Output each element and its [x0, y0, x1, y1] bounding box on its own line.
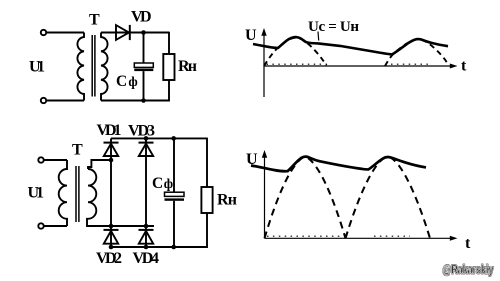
diode VD2: [104, 230, 119, 244]
node junction dot VD2 bottom rail: [109, 245, 114, 250]
X axis 1: [264, 64, 458, 69]
node junction dot VD4 bottom rail: [144, 245, 149, 250]
transformer T1 core: [92, 35, 95, 97]
node junction dot VD3 top rail: [144, 136, 149, 141]
wire capacitor upper lead: [143, 33, 145, 64]
wire resistor lower lead 2: [206, 213, 208, 248]
node junction dot secondary top to left column: [109, 158, 114, 163]
label U axis 1: [245, 27, 257, 44]
terminal bottom-left input: [41, 98, 46, 103]
svg-text:T: T: [89, 12, 100, 29]
dotted zero line under hump 2: [391, 63, 431, 65]
capacitor C-filter 2 bottom plate: [165, 198, 185, 200]
wire primary bottom lead 2: [44, 225, 67, 227]
diode VD4: [139, 230, 154, 244]
wire primary top lead: [46, 32, 84, 34]
wire secondary top to diode: [101, 32, 169, 34]
wire resistor upper lead: [168, 32, 170, 54]
dashed sine hump 2: [385, 39, 449, 66]
svg-text:Rн: Rн: [217, 192, 237, 209]
svg-text:T: T: [72, 142, 83, 159]
wire resistor upper lead 2: [206, 138, 208, 187]
transformer T2 core: [76, 166, 79, 222]
transformer T2 primary winding: [59, 160, 67, 226]
transformer T1 primary winding: [77, 33, 84, 101]
node junction dot bottom AC right column: [144, 224, 149, 229]
label t axis 2: [465, 235, 471, 252]
X axis 2: [265, 236, 458, 241]
label U axis 2: [246, 151, 258, 168]
svg-text:VD3: VD3: [128, 123, 155, 140]
wire right bridge column: [145, 138, 147, 247]
wire primary bottom lead: [46, 100, 84, 102]
svg-text:VD2: VD2: [96, 250, 122, 267]
node junction dot capacitor top rail: [171, 136, 176, 141]
label Rn 2: [217, 192, 237, 209]
label VD2: [96, 250, 122, 267]
label Cf 2 (Сф): [152, 175, 173, 192]
node junction dot bottom of capacitor: [141, 98, 146, 103]
solid smoothed output curve 1: [253, 37, 448, 54]
wire bottom return: [101, 100, 170, 102]
node junction dot top of capacitor: [141, 30, 146, 35]
label U1 (bridge): [28, 185, 45, 202]
wire bottom rail: [111, 246, 208, 248]
Y axis 2: [262, 150, 267, 238]
label Cf (Сф): [116, 73, 138, 90]
dashed rectified sine hump 2: [346, 157, 431, 238]
wire secondary bottom to bridge: [87, 219, 154, 226]
watermark @Rakarskiy: [443, 263, 494, 277]
svg-text:Сф: Сф: [152, 175, 173, 192]
wire capacitor upper lead 2: [173, 138, 175, 192]
transformer T2 secondary winding: [88, 169, 96, 219]
wire secondary top to bridge: [88, 160, 111, 169]
resistor Rn 2: [201, 187, 212, 213]
node junction dot bottom AC left column: [109, 224, 114, 229]
wire capacitor lower lead: [143, 71, 145, 100]
svg-text:VD4: VD4: [133, 250, 160, 267]
wire resistor lower lead: [168, 80, 170, 101]
terminal bottom-left input 2: [38, 223, 43, 228]
capacitor C-filter bottom plate: [134, 69, 153, 72]
svg-text:t: t: [465, 235, 471, 252]
wire capacitor lower lead 2: [173, 201, 175, 247]
Y axis 1: [261, 28, 266, 97]
transformer T1 secondary winding: [101, 33, 108, 101]
svg-text:@Rakarskiy: @Rakarskiy: [443, 263, 494, 277]
wire left bridge column: [110, 138, 112, 247]
label VD3: [128, 123, 155, 140]
dotted zero line under hump 1 (bridge): [267, 235, 340, 237]
dashed sine hump 1: [264, 38, 327, 66]
solid smoothed output curve 2: [251, 157, 426, 172]
svg-text:t: t: [461, 58, 467, 75]
capacitor C-filter 2 top plate: [165, 192, 185, 196]
resistor Rn (Rн): [163, 54, 174, 80]
svg-text:U1: U1: [28, 185, 45, 202]
svg-text:Сф: Сф: [116, 73, 138, 90]
svg-text:U: U: [245, 27, 257, 44]
dotted zero line under hump 1: [267, 63, 328, 65]
label T (bridge transformer): [72, 142, 83, 159]
label VD: [131, 9, 152, 26]
diode VD1: [104, 143, 119, 156]
diode VD3: [139, 143, 154, 156]
svg-text:Uс = Uн: Uс = Uн: [308, 19, 359, 35]
svg-text:U1: U1: [29, 59, 45, 76]
label U1: [29, 59, 45, 76]
label Uc = Un: [308, 19, 359, 35]
svg-text:VD1: VD1: [97, 122, 122, 139]
terminal top-left input 2: [38, 157, 43, 162]
svg-text:Rн: Rн: [178, 58, 197, 75]
label t axis 1: [461, 58, 467, 75]
wire top rail: [111, 137, 207, 139]
label Rn: [178, 58, 197, 75]
svg-text:VD: VD: [131, 9, 152, 26]
dotted zero line under hump 2 (bridge): [374, 235, 410, 237]
node junction dot capacitor bottom rail: [171, 245, 176, 250]
label VD4: [133, 250, 160, 267]
diode VD: [116, 25, 130, 40]
capacitor C-filter top plate: [134, 63, 153, 67]
wire primary top lead 2: [44, 159, 67, 161]
label T (top transformer): [89, 12, 100, 29]
dashed rectified sine hump 1: [265, 157, 346, 238]
terminal top-left input: [41, 30, 46, 35]
label VD1: [97, 122, 122, 139]
leader tick from label to curve: [317, 32, 320, 41]
